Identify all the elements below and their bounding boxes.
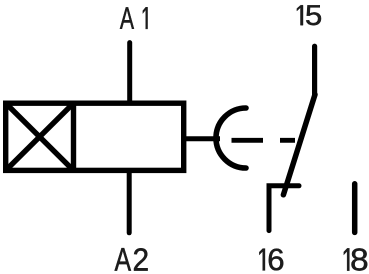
dashed mechanical linkage <box>232 138 296 143</box>
wire terminal A2 <box>127 171 132 233</box>
contact blade (timed changeover) <box>283 95 315 195</box>
terminal label 15 <box>297 5 321 25</box>
terminal 16 contact bracket <box>269 186 299 231</box>
terminal label A1 <box>120 7 148 29</box>
wire terminal 18 contact <box>352 184 358 233</box>
off-delay semicircle symbol <box>216 108 246 168</box>
coil K1 body rectangle <box>6 103 184 170</box>
wire terminal A1 <box>127 43 132 103</box>
terminal label A2 <box>115 248 148 270</box>
terminal label 16 <box>259 249 283 271</box>
wire terminal 15 lead <box>312 46 317 95</box>
coil X symbol diagonal 1 <box>6 103 74 170</box>
wire coil to delay symbol <box>184 136 220 141</box>
coil internal divider <box>71 101 76 173</box>
coil X symbol diagonal 2 <box>6 103 74 170</box>
terminal label 18 <box>344 248 367 270</box>
